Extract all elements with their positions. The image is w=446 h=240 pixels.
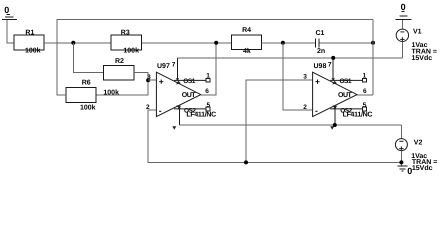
- svg-text:2n: 2n: [317, 48, 325, 55]
- svg-text:U97: U97: [157, 63, 170, 70]
- svg-text:OS1: OS1: [340, 78, 352, 85]
- svg-text:R6: R6: [82, 80, 91, 87]
- svg-text:C1: C1: [316, 30, 325, 37]
- wire R4 to C1: [262, 42, 316, 44]
- ground 0 (bottom-right below V2): [397, 166, 412, 176]
- ground 0 (top-right above V1): [396, 2, 412, 20]
- OS1 terminal square U98: [362, 78, 366, 82]
- pin OS1 wire U97: [174, 79, 206, 81]
- svg-text:15Vdc: 15Vdc: [412, 54, 433, 62]
- svg-text:2: 2: [146, 104, 150, 111]
- wire U97 OUT up to main row: [201, 43, 216, 95]
- resistor R6: [66, 80, 96, 112]
- svg-text:5: 5: [207, 102, 211, 109]
- svg-text:3: 3: [303, 74, 307, 81]
- svg-text:R3: R3: [121, 29, 130, 36]
- svg-text:1: 1: [363, 72, 367, 79]
- svg-text:0: 0: [4, 5, 9, 15]
- pin 4 V- stub U98: [334, 108, 336, 126]
- node junction U98 pin7: [331, 56, 335, 60]
- svg-text:R1: R1: [25, 29, 34, 36]
- svg-text:6: 6: [363, 88, 367, 95]
- wire V2 to ground rail: [400, 151, 402, 167]
- svg-text:7: 7: [172, 61, 176, 68]
- svg-text:1: 1: [206, 72, 210, 79]
- svg-text:V1: V1: [413, 29, 422, 36]
- node junction to U98 pin2: [281, 41, 285, 45]
- pin OS2 wire U97: [174, 108, 206, 110]
- svg-text:0: 0: [407, 166, 412, 176]
- svg-text:100k: 100k: [80, 104, 96, 112]
- svg-text:4k: 4k: [243, 47, 251, 55]
- svg-text:U98: U98: [314, 63, 327, 70]
- svg-text:V2: V2: [414, 139, 423, 146]
- wire pin 3 stub U97: [148, 79, 156, 81]
- pin OS2 wire U98: [330, 108, 362, 110]
- svg-text:7: 7: [328, 61, 332, 68]
- wire right vertical (top rail to U98 OUT): [372, 19, 374, 95]
- voltage source V1: [396, 29, 437, 63]
- pin 4 V- stub U97: [178, 108, 180, 126]
- wire junction down to U98 pin 2: [283, 43, 313, 110]
- svg-text:+: +: [315, 76, 320, 86]
- svg-text:3: 3: [147, 74, 151, 81]
- OS2 terminal square U98: [362, 107, 366, 111]
- wire ground to R1: [7, 20, 14, 43]
- wire R3 to R4: [142, 42, 232, 44]
- wire left feedback loop to R6: [57, 19, 373, 95]
- node junction ground rail: [244, 160, 248, 164]
- node junction V2 ground: [399, 160, 403, 164]
- wire C1 to U98 out vertical: [320, 42, 373, 44]
- svg-text:6: 6: [205, 88, 209, 95]
- node junction R1-R2: [71, 41, 75, 45]
- wire V1 to V+ rail: [401, 42, 403, 58]
- wire R2 to U97 +input vertical: [96, 73, 148, 96]
- wire U98 pin3 to ground rail: [246, 80, 313, 162]
- node junction U98 pin4: [333, 123, 337, 127]
- wire junction down to R2: [73, 43, 103, 73]
- svg-text:2: 2: [303, 104, 307, 111]
- resistor R3: [111, 29, 142, 54]
- ground 0 (top-left): [2, 5, 17, 20]
- pin OS1 wire U98: [330, 79, 362, 81]
- svg-text:OUT: OUT: [182, 92, 197, 99]
- svg-text:LF411/NC: LF411/NC: [343, 110, 373, 118]
- wire pin 2 U97 to ground rail: [148, 110, 401, 162]
- OS1 terminal square U97: [206, 78, 210, 82]
- svg-text:R2: R2: [115, 58, 124, 65]
- wire V- rail (pin4s to V2): [179, 124, 401, 126]
- node junction pin3 U97: [146, 78, 150, 82]
- wire U98 OUT stub: [357, 94, 373, 96]
- resistor R1: [14, 29, 44, 54]
- svg-text:OUT: OUT: [338, 92, 353, 99]
- pin 7 V+ stub U98: [332, 58, 334, 79]
- svg-text:100k: 100k: [123, 47, 139, 55]
- svg-text:100k: 100k: [25, 47, 41, 55]
- svg-text:LF411/NC: LF411/NC: [186, 110, 216, 118]
- wire ground to V1: [401, 20, 403, 29]
- resistor R4: [232, 27, 262, 55]
- op-amp U98: [313, 58, 373, 130]
- wire V+ rail (pin7s to V1): [178, 57, 403, 59]
- capacitor C1: [316, 30, 326, 55]
- svg-text:5: 5: [363, 102, 367, 109]
- op-amp U97: [156, 58, 216, 130]
- OS2 terminal square U97: [206, 107, 210, 111]
- wire V2 stub from V- rail: [400, 125, 402, 139]
- svg-text:+: +: [159, 76, 164, 86]
- svg-text:OS1: OS1: [183, 78, 195, 85]
- svg-text:R4: R4: [242, 27, 251, 34]
- wire R1 to R3: [44, 42, 111, 44]
- svg-text:-: -: [315, 106, 318, 116]
- svg-text:0: 0: [401, 2, 406, 12]
- node junction U97 out: [214, 41, 218, 45]
- resistor R2: [103, 58, 133, 96]
- voltage source V2: [395, 139, 437, 172]
- pin 7 V+ stub U97: [177, 58, 179, 79]
- svg-text:15Vdc: 15Vdc: [412, 164, 433, 172]
- svg-text:-: -: [159, 106, 162, 116]
- node junction feedback: [371, 41, 375, 45]
